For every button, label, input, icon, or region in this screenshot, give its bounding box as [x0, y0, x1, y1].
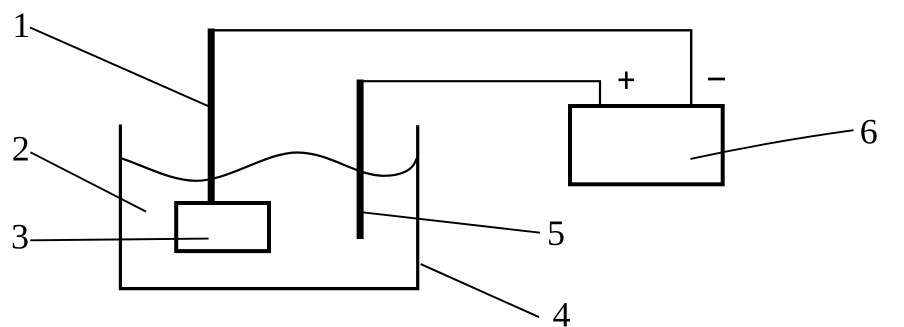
- svg-text:6: 6: [860, 112, 878, 152]
- svg-text:1: 1: [12, 5, 30, 45]
- svg-text:4: 4: [553, 294, 571, 327]
- svg-text:5: 5: [547, 213, 565, 253]
- svg-text:3: 3: [11, 217, 29, 257]
- svg-text:2: 2: [12, 129, 30, 169]
